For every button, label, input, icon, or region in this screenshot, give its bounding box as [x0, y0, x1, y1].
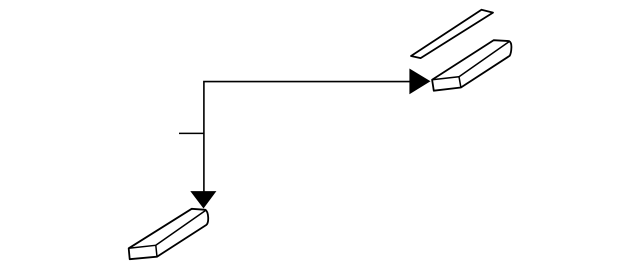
upper molding end-cap and ridge edges [432, 42, 509, 88]
lower molding end-cap and ridge edges [129, 211, 206, 257]
arrowhead down (points to lower molding) [190, 191, 216, 208]
tick mark on vertical leader [179, 132, 204, 134]
wire: leader line (vertical drop + horizontal run) [204, 82, 410, 192]
arrowhead right (points to upper molding) [409, 69, 430, 95]
lower molding (3D bar) silhouette [129, 209, 209, 259]
adhesive tape strip (thin parallelogram, top right) [411, 10, 493, 58]
upper molding (3D bar) silhouette [432, 40, 511, 90]
